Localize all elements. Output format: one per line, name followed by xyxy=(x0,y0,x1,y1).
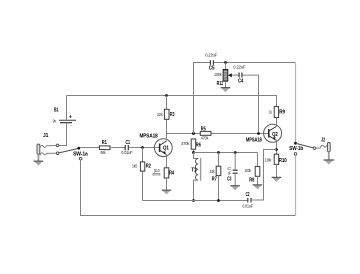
wire R10 to ground xyxy=(276,164,278,177)
svg-text:J2: J2 xyxy=(321,137,325,143)
capacitor C2 xyxy=(242,192,253,209)
transistor Q2 xyxy=(246,124,282,143)
wire R3 top lead xyxy=(166,96,168,110)
node R6/T1/emitter-bus junction xyxy=(192,151,195,154)
svg-text:470k: 470k xyxy=(201,135,209,140)
resistor R3 xyxy=(157,109,175,119)
node R11 top xyxy=(224,61,227,64)
svg-text:MPSA18: MPSA18 xyxy=(140,134,158,140)
wire Q1 emitter to R4 xyxy=(166,155,168,168)
svg-text:C2: C2 xyxy=(246,192,250,198)
svg-text:J1: J1 xyxy=(43,133,49,139)
ground (R11) xyxy=(221,88,231,92)
wire R11 top lead xyxy=(225,63,227,70)
ground (J2 sleeve) xyxy=(324,152,335,165)
node R7 bottom on bus xyxy=(217,199,220,202)
resistor R1 xyxy=(99,140,110,155)
svg-text:SW-1b: SW-1b xyxy=(289,146,303,152)
resistor R7 xyxy=(210,166,221,182)
wire SW-1a lower throw to bypass bus xyxy=(81,160,296,216)
wire C5 branch vertical xyxy=(194,63,211,134)
svg-text:R4: R4 xyxy=(169,170,174,176)
capacitor C1 xyxy=(121,140,132,155)
wire battery top lead xyxy=(66,96,68,120)
node junction C5/R5/R6 xyxy=(192,132,195,135)
wiper arrow of R11 xyxy=(228,73,232,77)
wire Q2 emitter to R10 xyxy=(276,140,278,154)
wire R8 bottom to ground xyxy=(257,176,259,184)
wire emitter bus line3 xyxy=(194,152,258,154)
node C3 top xyxy=(234,151,237,154)
wire C4 to Q2 base node xyxy=(242,75,258,133)
node R7 top xyxy=(217,151,220,154)
potentiometer R11 xyxy=(214,69,228,87)
resistor R10 xyxy=(265,154,287,164)
battery B1 xyxy=(53,107,76,127)
wire C1 to Q1 base xyxy=(129,147,160,149)
svg-text:0.22uF: 0.22uF xyxy=(233,65,245,70)
ground (R8) xyxy=(253,185,263,189)
capacitor C3 xyxy=(227,166,238,182)
svg-text:470k: 470k xyxy=(181,141,190,146)
svg-text:0.01uF: 0.01uF xyxy=(121,150,132,155)
wire R6 bottom junction xyxy=(193,149,195,152)
wire battery bottom lead to J1 tip contact xyxy=(59,123,67,145)
ground (R4) xyxy=(162,190,171,194)
wire C3 top lead xyxy=(234,153,236,170)
ground (J1 sleeve) xyxy=(34,154,44,165)
wire SW-1a pole to R1 xyxy=(80,147,99,149)
transistor Q1 xyxy=(140,134,173,157)
svg-text:C1: C1 xyxy=(126,140,131,146)
svg-text:ohms: ohms xyxy=(152,172,161,177)
svg-text:R2: R2 xyxy=(146,163,151,169)
wire bottom bus R2 to C2 xyxy=(143,200,248,202)
resistor R8 xyxy=(244,166,259,183)
svg-text:R10: R10 xyxy=(279,158,287,164)
node T1 bottom on bus xyxy=(192,199,195,202)
svg-text:68k: 68k xyxy=(101,150,107,155)
svg-text:MPSA18: MPSA18 xyxy=(246,138,262,144)
wire wiper to C4 xyxy=(232,74,239,76)
svg-text:R9: R9 xyxy=(279,109,285,115)
resistor R4 xyxy=(152,168,174,178)
svg-text:10k: 10k xyxy=(265,158,272,163)
svg-text:T1: T1 xyxy=(191,167,196,173)
svg-text:0.01uF: 0.01uF xyxy=(242,203,253,208)
jack J1 xyxy=(37,133,56,156)
wire Q1 collector to R3 xyxy=(166,119,168,140)
wire Q1 collector branch to R5 and Q2 base xyxy=(167,133,269,135)
node R3 top on supply rail xyxy=(165,94,168,97)
svg-text:1k5: 1k5 xyxy=(132,163,138,168)
svg-text:100k: 100k xyxy=(214,72,222,77)
svg-text:R6: R6 xyxy=(196,143,201,149)
svg-text:R8: R8 xyxy=(249,177,254,183)
node J1 tip contact xyxy=(56,144,59,147)
switch SW-1a xyxy=(59,147,88,160)
jack J2 xyxy=(320,137,330,151)
node Q2 emitter branch xyxy=(275,148,278,151)
svg-text:R3: R3 xyxy=(170,112,175,118)
wire R9 to Q2 collector xyxy=(276,118,278,127)
svg-text:Q1: Q1 xyxy=(163,146,169,152)
wire emitter branch to C2 xyxy=(252,150,277,201)
transformer T1 xyxy=(191,153,200,201)
wire supply rail from battery to R9 xyxy=(67,96,277,107)
svg-text:Q2: Q2 xyxy=(272,132,278,138)
node C4 branch on Q2 base xyxy=(257,132,260,135)
resistor R2 xyxy=(132,162,151,171)
resistor R6 xyxy=(181,139,201,149)
ground (C3) xyxy=(230,186,240,190)
capacitor C4 xyxy=(233,65,245,85)
svg-text:C5: C5 xyxy=(209,65,215,71)
wire R7 bottom lead xyxy=(218,176,220,201)
svg-text:R7: R7 xyxy=(212,177,217,183)
wire R7 top lead xyxy=(218,153,220,167)
svg-text:R1: R1 xyxy=(102,140,107,146)
wire SW-1b throw to J2 xyxy=(316,147,320,149)
wire R11 bottom to ground xyxy=(225,81,227,87)
switch SW-1b xyxy=(289,142,316,155)
svg-text:B1: B1 xyxy=(54,107,59,113)
wire R8 top lead xyxy=(257,153,259,167)
svg-text:SW-1a: SW-1a xyxy=(73,152,88,158)
svg-text:C4: C4 xyxy=(238,78,244,84)
wire SW-1b lower contact to bypass bus xyxy=(295,155,297,215)
svg-text:uF: uF xyxy=(228,170,231,175)
capacitor C5 xyxy=(205,53,217,72)
svg-text:R11: R11 xyxy=(217,81,224,87)
resistor R9 xyxy=(269,107,285,118)
ground (R10) xyxy=(272,177,282,181)
svg-text:0.22uF: 0.22uF xyxy=(205,53,217,58)
svg-text:33k: 33k xyxy=(210,169,216,174)
svg-text:100k: 100k xyxy=(244,168,251,173)
node R2 top junction xyxy=(141,146,144,149)
svg-text:C3: C3 xyxy=(227,176,232,182)
wire output rail down to SW-1b pole xyxy=(295,63,297,142)
resistor R5 xyxy=(200,126,211,140)
svg-text:+: + xyxy=(69,115,72,121)
wire C5 to output rail xyxy=(214,62,296,64)
wire C3 to ground xyxy=(234,173,236,185)
wire R1 to C1 xyxy=(110,147,125,149)
node J1 ring contact xyxy=(56,152,59,155)
wire R4 to ground xyxy=(166,178,168,190)
svg-text:R5: R5 xyxy=(201,126,206,132)
wire R2 leads xyxy=(142,148,144,201)
svg-text:22k: 22k xyxy=(157,112,163,117)
